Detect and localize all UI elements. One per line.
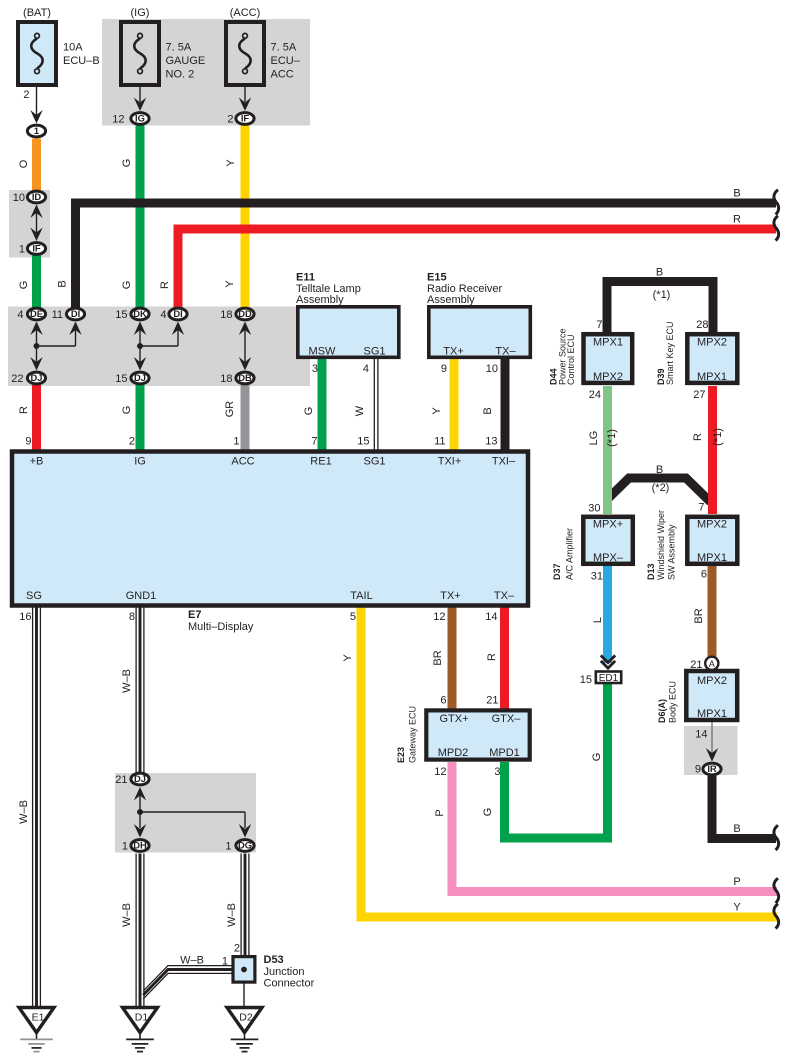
svg-text:G: G xyxy=(303,407,315,416)
svg-text:24: 24 xyxy=(589,389,601,401)
svg-text:W–B: W–B xyxy=(121,669,133,693)
svg-text:MPX1: MPX1 xyxy=(593,337,623,349)
svg-text:MPX1: MPX1 xyxy=(697,552,727,564)
svg-text:(IG): (IG) xyxy=(131,7,150,19)
svg-text:15: 15 xyxy=(580,674,592,686)
svg-text:30: 30 xyxy=(588,503,600,515)
svg-text:ACC: ACC xyxy=(271,69,294,81)
svg-text:RE1: RE1 xyxy=(310,456,331,468)
svg-text:4: 4 xyxy=(363,363,369,375)
svg-text:R: R xyxy=(159,281,171,289)
svg-text:10A: 10A xyxy=(63,42,83,54)
svg-text:TXI+: TXI+ xyxy=(438,456,462,468)
svg-text:R: R xyxy=(692,433,704,441)
svg-text:SG1: SG1 xyxy=(363,346,385,358)
svg-text:E7: E7 xyxy=(188,609,201,621)
svg-text:D6(A): D6(A) xyxy=(657,699,667,723)
svg-text:MPD2: MPD2 xyxy=(438,747,469,759)
svg-text:TAIL: TAIL xyxy=(350,590,372,602)
svg-text:G: G xyxy=(121,159,133,168)
svg-text:E1: E1 xyxy=(32,1012,45,1024)
svg-text:9: 9 xyxy=(25,436,31,448)
svg-text:E23: E23 xyxy=(396,747,406,763)
svg-text:(*1): (*1) xyxy=(653,289,671,301)
svg-text:Smart Key ECU: Smart Key ECU xyxy=(665,321,675,385)
svg-text:W–B: W–B xyxy=(121,903,133,927)
svg-text:R: R xyxy=(18,406,30,414)
svg-text:W–B: W–B xyxy=(18,800,30,824)
svg-text:TX+: TX+ xyxy=(440,590,460,602)
svg-text:27: 27 xyxy=(693,389,705,401)
svg-text:E15: E15 xyxy=(427,272,447,284)
svg-text:1: 1 xyxy=(233,436,239,448)
svg-text:13: 13 xyxy=(485,436,497,448)
svg-text:ECU–B: ECU–B xyxy=(63,55,100,67)
svg-text:5: 5 xyxy=(350,611,356,623)
svg-text:MPX2: MPX2 xyxy=(593,371,623,383)
svg-text:2: 2 xyxy=(234,943,240,955)
svg-text:31: 31 xyxy=(591,571,603,583)
svg-text:3: 3 xyxy=(494,766,500,778)
svg-text:MPX2: MPX2 xyxy=(697,337,727,349)
svg-text:Windshield Wiper: Windshield Wiper xyxy=(656,510,666,580)
svg-text:IG: IG xyxy=(135,113,145,124)
svg-text:Assembly: Assembly xyxy=(296,294,344,306)
svg-text:11: 11 xyxy=(52,309,63,321)
svg-text:GR: GR xyxy=(224,401,236,418)
svg-text:ACC: ACC xyxy=(231,456,254,468)
svg-text:DG: DG xyxy=(238,840,252,851)
svg-text:DH: DH xyxy=(133,840,147,851)
svg-text:B: B xyxy=(57,280,69,287)
svg-text:7. 5A: 7. 5A xyxy=(271,42,297,54)
svg-text:R: R xyxy=(486,653,498,661)
svg-text:B: B xyxy=(482,407,494,414)
svg-text:E11: E11 xyxy=(296,272,315,284)
svg-text:Body ECU: Body ECU xyxy=(668,681,678,723)
svg-text:MPX–: MPX– xyxy=(593,552,624,564)
svg-text:Y: Y xyxy=(342,654,354,662)
svg-text:+B: +B xyxy=(30,456,44,468)
svg-text:6: 6 xyxy=(701,569,707,581)
svg-text:8: 8 xyxy=(129,611,135,623)
svg-text:Multi–Display: Multi–Display xyxy=(188,621,254,633)
svg-text:7: 7 xyxy=(311,436,317,448)
svg-text:1: 1 xyxy=(225,841,231,853)
svg-text:ID: ID xyxy=(32,191,42,202)
svg-text:21: 21 xyxy=(486,695,498,707)
svg-text:IR: IR xyxy=(707,763,717,774)
svg-text:15: 15 xyxy=(357,436,369,448)
svg-text:12: 12 xyxy=(112,114,124,126)
svg-text:Y: Y xyxy=(225,159,237,167)
svg-text:NO. 2: NO. 2 xyxy=(166,69,195,81)
svg-text:DK: DK xyxy=(133,308,147,319)
svg-text:MPX1: MPX1 xyxy=(697,708,727,720)
svg-text:D1: D1 xyxy=(135,1012,149,1024)
svg-text:BR: BR xyxy=(693,608,705,623)
svg-text:SG: SG xyxy=(26,590,42,602)
svg-text:1: 1 xyxy=(222,956,228,968)
svg-text:7: 7 xyxy=(596,319,602,331)
svg-text:28: 28 xyxy=(696,319,708,331)
svg-text:22: 22 xyxy=(11,373,23,385)
svg-text:SG1: SG1 xyxy=(363,456,385,468)
svg-text:Gateway ECU: Gateway ECU xyxy=(408,706,418,763)
svg-text:G: G xyxy=(591,753,603,762)
svg-text:L: L xyxy=(592,617,604,623)
svg-text:G: G xyxy=(482,808,494,817)
svg-text:GND1: GND1 xyxy=(126,590,157,602)
svg-text:Connector: Connector xyxy=(264,978,315,990)
svg-text:DB: DB xyxy=(238,372,252,383)
svg-text:W–B: W–B xyxy=(226,903,238,927)
svg-text:MPX+: MPX+ xyxy=(593,519,623,531)
svg-text:TX–: TX– xyxy=(494,590,515,602)
svg-text:GTX+: GTX+ xyxy=(439,713,468,725)
svg-text:R: R xyxy=(733,214,741,226)
svg-text:(*1): (*1) xyxy=(606,429,618,447)
svg-text:11: 11 xyxy=(434,436,445,448)
svg-text:18: 18 xyxy=(220,373,232,385)
svg-text:MPD1: MPD1 xyxy=(489,747,520,759)
svg-text:DI: DI xyxy=(71,308,80,319)
svg-text:P: P xyxy=(733,876,740,888)
svg-text:12: 12 xyxy=(433,611,445,623)
svg-text:SW Assembly: SW Assembly xyxy=(667,524,677,580)
svg-text:A/C Amplifier: A/C Amplifier xyxy=(565,528,575,580)
svg-text:10: 10 xyxy=(13,192,25,204)
svg-text:Y: Y xyxy=(733,902,741,914)
svg-text:MSW: MSW xyxy=(309,346,337,358)
svg-text:MPX2: MPX2 xyxy=(697,519,727,531)
svg-text:ED1: ED1 xyxy=(599,673,619,684)
svg-text:1: 1 xyxy=(19,244,25,256)
svg-text:GTX–: GTX– xyxy=(492,713,522,725)
svg-text:D13: D13 xyxy=(646,563,656,580)
svg-text:2: 2 xyxy=(23,89,29,101)
svg-text:DD: DD xyxy=(238,308,252,319)
svg-text:2: 2 xyxy=(227,114,233,126)
svg-text:IF: IF xyxy=(241,113,250,124)
svg-text:4: 4 xyxy=(160,309,166,321)
svg-text:6: 6 xyxy=(440,695,446,707)
svg-text:Y: Y xyxy=(224,280,236,288)
svg-text:D37: D37 xyxy=(552,563,562,580)
svg-text:15: 15 xyxy=(115,309,127,321)
svg-text:ECU–: ECU– xyxy=(271,55,301,67)
svg-text:1: 1 xyxy=(122,841,128,853)
svg-text:DI: DI xyxy=(173,308,182,319)
svg-text:G: G xyxy=(121,281,133,290)
svg-text:B: B xyxy=(733,823,740,835)
svg-text:1: 1 xyxy=(34,125,39,136)
svg-text:P: P xyxy=(434,809,446,816)
svg-text:O: O xyxy=(18,159,30,168)
svg-text:DJ: DJ xyxy=(31,372,43,383)
svg-text:2: 2 xyxy=(129,436,135,448)
svg-text:21: 21 xyxy=(690,659,702,671)
svg-text:A: A xyxy=(709,659,715,669)
svg-text:14: 14 xyxy=(695,729,707,741)
svg-text:DJ: DJ xyxy=(134,773,146,784)
svg-text:10: 10 xyxy=(486,363,498,375)
svg-text:B: B xyxy=(656,267,663,279)
svg-text:D53: D53 xyxy=(264,954,284,966)
svg-text:TX–: TX– xyxy=(495,346,516,358)
svg-text:W: W xyxy=(354,405,366,416)
svg-text:(BAT): (BAT) xyxy=(23,7,51,19)
svg-text:MPX2: MPX2 xyxy=(697,675,727,687)
svg-text:TXI–: TXI– xyxy=(492,456,516,468)
svg-text:TX+: TX+ xyxy=(443,346,463,358)
svg-text:DJ: DJ xyxy=(134,372,146,383)
svg-text:Y: Y xyxy=(431,407,443,415)
svg-text:(*2): (*2) xyxy=(652,482,670,494)
svg-text:14: 14 xyxy=(485,611,497,623)
svg-text:IG: IG xyxy=(134,456,146,468)
svg-text:(ACC): (ACC) xyxy=(230,7,261,19)
svg-text:21: 21 xyxy=(115,774,127,786)
svg-text:7: 7 xyxy=(698,502,704,514)
svg-text:18: 18 xyxy=(220,309,232,321)
svg-text:9: 9 xyxy=(441,363,447,375)
svg-text:4: 4 xyxy=(17,309,23,321)
svg-text:Junction: Junction xyxy=(264,966,305,978)
svg-text:3: 3 xyxy=(312,363,318,375)
svg-text:GAUGE: GAUGE xyxy=(166,55,206,67)
svg-text:Control ECU: Control ECU xyxy=(566,334,576,385)
svg-text:B: B xyxy=(733,188,740,200)
svg-text:9: 9 xyxy=(695,764,701,776)
svg-text:G: G xyxy=(18,281,30,290)
svg-text:MPX1: MPX1 xyxy=(697,371,727,383)
svg-text:LG: LG xyxy=(588,431,600,446)
svg-text:B: B xyxy=(656,464,663,476)
svg-text:7. 5A: 7. 5A xyxy=(166,42,192,54)
svg-text:(*1): (*1) xyxy=(712,428,724,446)
svg-text:16: 16 xyxy=(19,611,31,623)
svg-text:Assembly: Assembly xyxy=(427,294,475,306)
svg-text:15: 15 xyxy=(115,373,127,385)
svg-text:D2: D2 xyxy=(239,1012,253,1024)
svg-text:12: 12 xyxy=(434,766,446,778)
svg-text:DE: DE xyxy=(30,308,43,319)
svg-text:BR: BR xyxy=(432,650,444,665)
svg-text:G: G xyxy=(121,406,133,415)
svg-text:W–B: W–B xyxy=(180,955,204,967)
svg-text:IF: IF xyxy=(32,243,41,254)
